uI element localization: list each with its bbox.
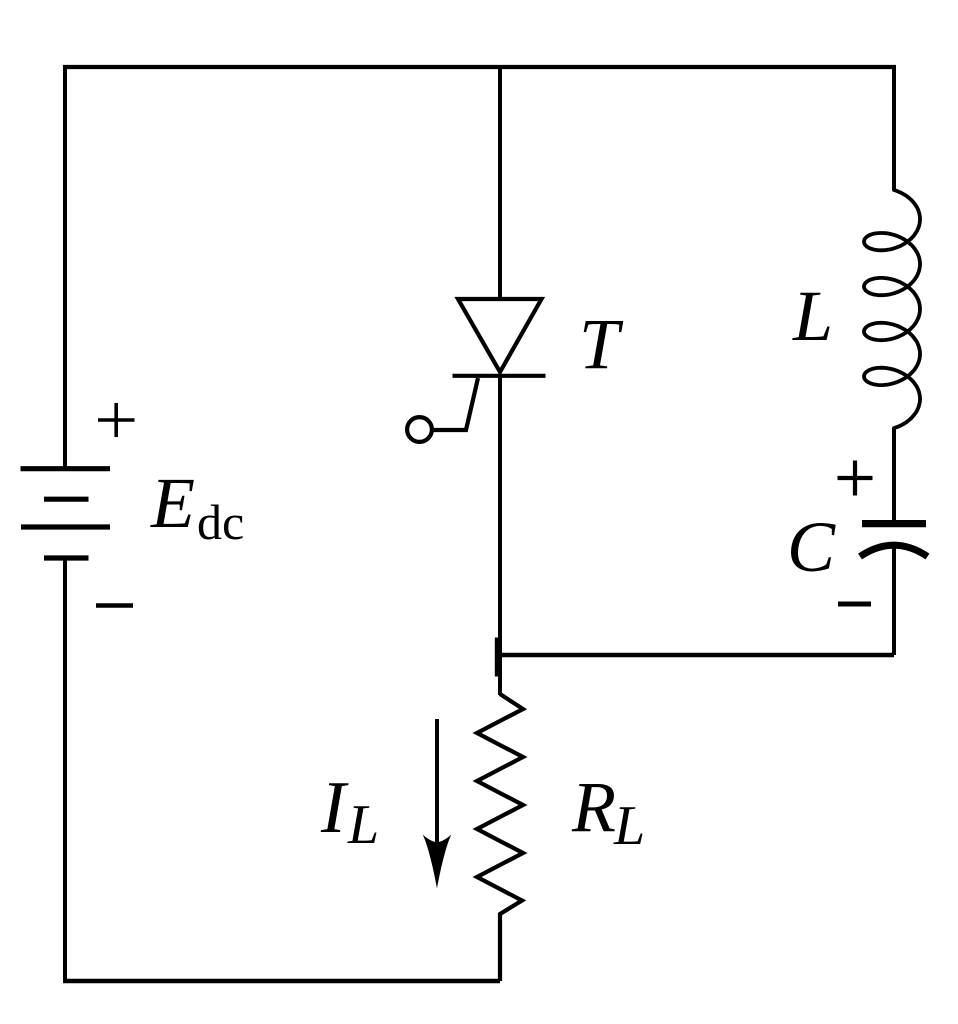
svg-text:L: L bbox=[347, 794, 379, 856]
wire inductor to capacitor bbox=[892, 428, 896, 521]
gate terminal circle bbox=[407, 417, 432, 442]
wire right vertical upper bbox=[892, 67, 896, 190]
wire bottom bbox=[63, 979, 500, 983]
svg-text:E: E bbox=[150, 463, 195, 543]
wire thyristor anode bbox=[498, 67, 502, 301]
thyristor cathode bar bbox=[453, 374, 546, 378]
thyristor gate lead bbox=[433, 378, 478, 430]
svg-text:C: C bbox=[787, 507, 836, 587]
current arrow I_L head bbox=[423, 835, 452, 889]
svg-text:dc: dc bbox=[197, 494, 244, 550]
inductor L coil bbox=[864, 190, 920, 428]
svg-text:R: R bbox=[571, 767, 616, 847]
capacitor C curved plate bbox=[860, 545, 928, 556]
battery E_dc plate long top bbox=[21, 466, 111, 471]
wire top bbox=[63, 65, 896, 69]
battery plate short bbox=[44, 497, 89, 502]
thyristor T triangle bbox=[458, 299, 542, 372]
svg-text:I: I bbox=[320, 767, 349, 849]
junction node tick bbox=[495, 638, 502, 677]
wire capacitor down bbox=[892, 548, 896, 655]
capacitor plus sign bbox=[838, 461, 873, 496]
capacitor C top plate bbox=[862, 520, 926, 527]
battery minus sign bbox=[96, 603, 133, 608]
battery plus sign bbox=[98, 403, 135, 437]
wire middle horizontal bbox=[500, 653, 894, 657]
svg-text:T: T bbox=[579, 304, 624, 384]
svg-text:L: L bbox=[613, 795, 645, 857]
svg-text:L: L bbox=[792, 276, 833, 356]
battery plate long lower bbox=[21, 524, 110, 529]
current arrow I_L shaft bbox=[435, 719, 439, 847]
battery plate short bottom bbox=[44, 555, 89, 560]
resistor R_L zigzag bbox=[477, 694, 523, 981]
wire left vertical lower bbox=[63, 558, 67, 981]
wire thyristor cathode down bbox=[498, 376, 502, 695]
wire left vertical upper bbox=[63, 67, 67, 468]
capacitor minus sign bbox=[838, 602, 871, 607]
